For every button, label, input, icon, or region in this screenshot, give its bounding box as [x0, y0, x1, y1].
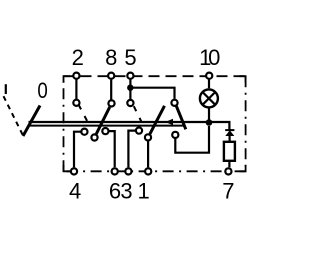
svg-text:0: 0 [37, 79, 47, 103]
svg-text:2: 2 [72, 45, 84, 70]
svg-text:3: 3 [120, 179, 132, 204]
svg-text:8: 8 [105, 45, 117, 70]
svg-text:1: 1 [137, 179, 149, 204]
svg-text:5: 5 [124, 45, 136, 70]
svg-text:0: 0 [208, 45, 220, 70]
svg-text:7: 7 [222, 179, 234, 204]
svg-text:6: 6 [109, 179, 121, 204]
svg-text:4: 4 [69, 179, 81, 204]
